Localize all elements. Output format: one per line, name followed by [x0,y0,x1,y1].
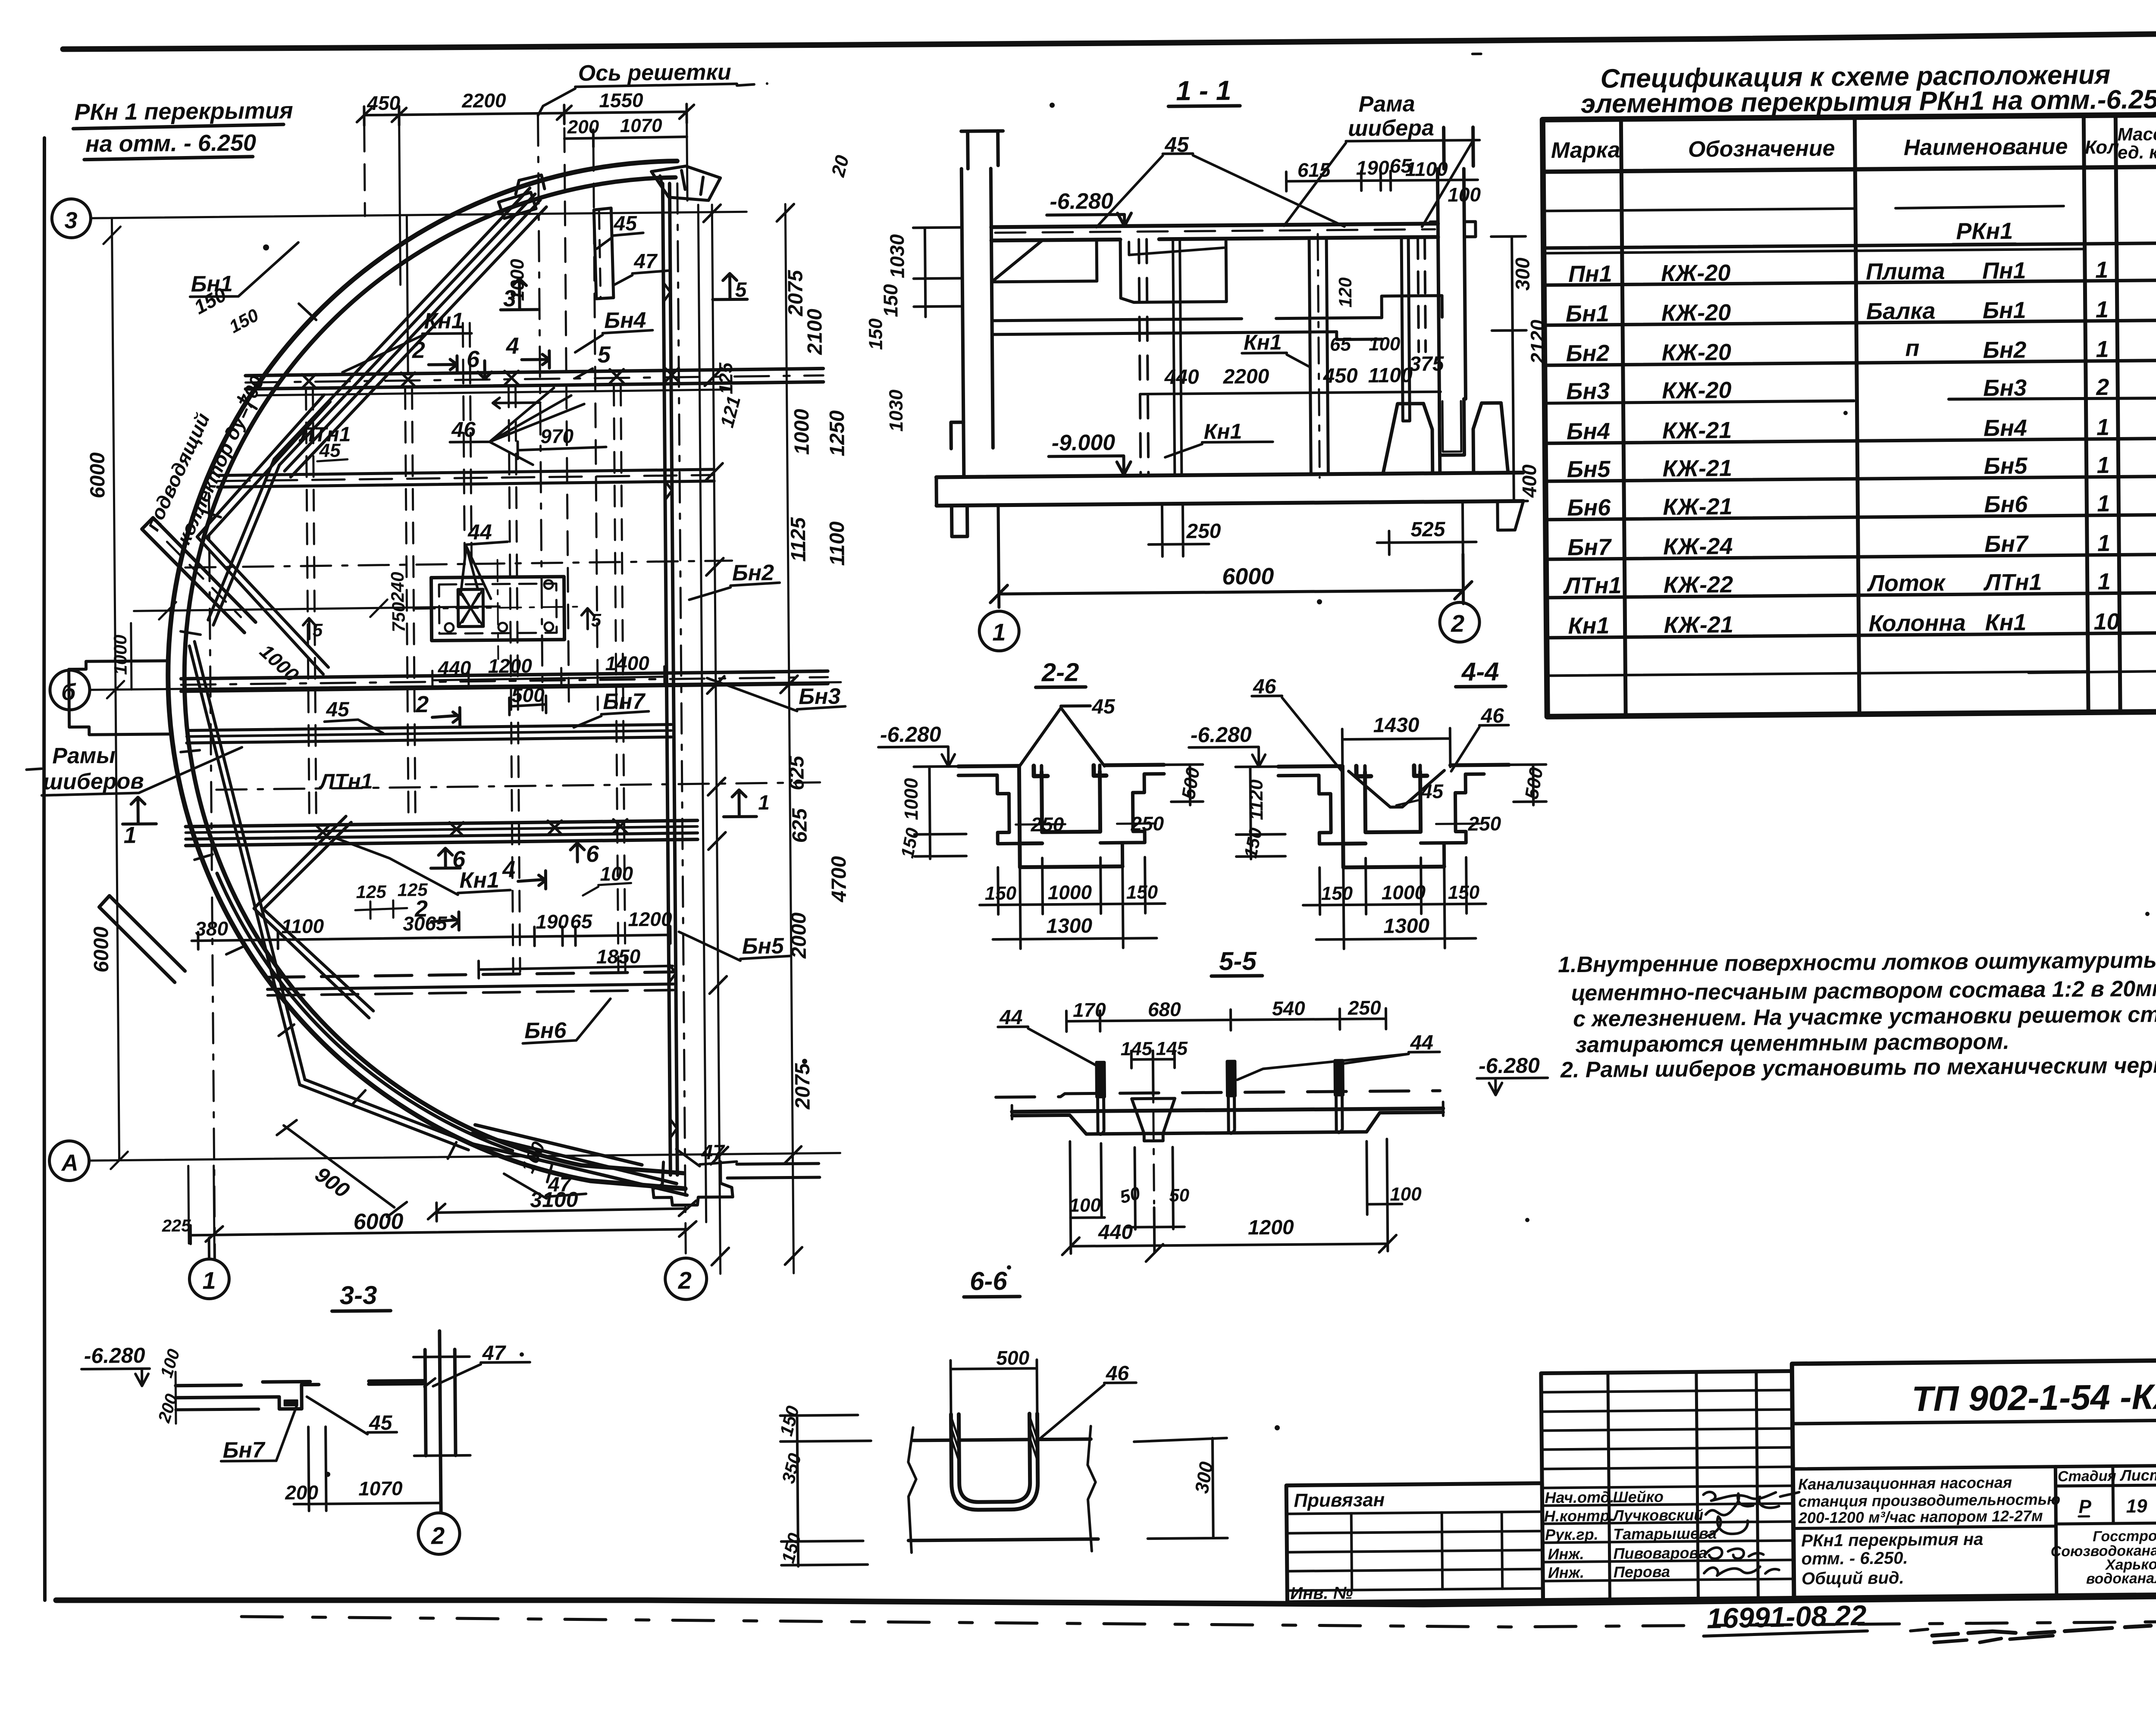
svg-text:1030: 1030 [886,389,907,432]
svg-text:100: 100 [1069,1195,1101,1216]
collector channel stub upper [142,517,256,633]
axis bubble Б [50,670,90,710]
svg-text:КЖ-20: КЖ-20 [1662,377,1732,404]
vertical pipe right of middle [1401,237,1410,421]
svg-text:190: 190 [536,910,569,933]
grid bubble 2 [1440,602,1480,642]
inner dim 250 [1436,823,1479,825]
axis 1 vertical dash-dot [209,493,215,1259]
svg-text:Бн5: Бн5 [1984,453,2028,479]
svg-text:450: 450 [1322,364,1358,388]
svg-text:-6.280: -6.280 [1191,723,1252,747]
svg-text:4: 4 [502,856,516,882]
right dim 500 [1164,764,1203,805]
svg-text:Бн4: Бн4 [1567,418,1610,444]
svg-text:Бн7: Бн7 [222,1438,266,1463]
svg-text:КЖ-21: КЖ-21 [1663,494,1733,520]
embedded corner angles [1034,765,1106,776]
svg-text:Бн7: Бн7 [603,689,646,714]
bottom dim 1300 [993,938,1157,939]
dim 500 top [950,1360,1037,1414]
svg-text:2000: 2000 [787,912,811,959]
right dim chain outer [785,204,793,1273]
svg-text:500: 500 [511,684,545,707]
beam Бн4 outline [594,208,614,299]
svg-text:1300: 1300 [1383,914,1429,938]
svg-text:-6.280: -6.280 [1479,1053,1540,1078]
svg-text:500: 500 [996,1346,1030,1369]
column dashed pairs vertical [306,385,625,974]
right dim 500 [1509,764,1546,805]
right footing pedestal [1382,403,1508,474]
svg-text:Пн1: Пн1 [1982,258,2026,284]
svg-text:Рук.гр.: Рук.гр. [1545,1525,1598,1543]
svg-text:-6.280: -6.280 [880,722,941,747]
plan labels and details [22,152,913,1279]
dim 1850 [479,960,673,979]
svg-text:150: 150 [1448,882,1480,904]
hull joint ticks [177,302,552,1185]
svg-text:КЖ-20: КЖ-20 [1661,339,1731,366]
svg-text:1100: 1100 [826,521,849,566]
frame left border [44,138,45,1600]
svg-text:100: 100 [1369,333,1401,355]
collector transverse dim line [134,599,499,620]
svg-text:2. Рамы шиберов установить: 2. Рамы шиберов установить по механическ… [1560,1052,2156,1082]
bottom dims 200 1070 [293,1426,441,1511]
svg-text:250: 250 [1130,812,1164,835]
svg-text:625: 625 [788,808,812,843]
bottom dims 440 1200 [1071,1244,1388,1246]
svg-text:2075: 2075 [791,1063,815,1110]
svg-text:440: 440 [1098,1221,1133,1244]
right dim 300 [1134,1438,1228,1539]
dim 145 145 [1131,1051,1175,1096]
svg-text:Бн7: Бн7 [1984,531,2029,557]
svg-text:125: 125 [356,882,386,902]
right dims 300 2120 400 [1491,236,1528,501]
svg-text:Пн1: Пн1 [1568,261,1612,287]
svg-text:Лоток: Лоток [1867,570,1946,596]
svg-text:1200: 1200 [628,908,672,931]
svg-text:-6.280: -6.280 [84,1343,145,1368]
svg-text:РКн1 перекрытия на: РКн1 перекрытия на [1801,1530,1983,1551]
svg-text:47: 47 [548,1173,572,1196]
lower dim verticals [1070,1139,1388,1254]
svg-text:Колонна: Колонна [1868,610,1966,637]
svg-text:2: 2 [412,337,426,363]
svg-text:КЖ-20: КЖ-20 [1661,300,1731,326]
svg-text:125: 125 [715,362,737,394]
svg-text:440: 440 [1164,366,1199,389]
svg-text:2: 2 [678,1267,692,1294]
hull niche at axis Б [69,661,170,735]
U anchor loop [951,1414,1038,1510]
svg-text:водоканалпроект: водоканалпроект [2086,1570,2156,1587]
svg-text:440: 440 [437,657,471,679]
svg-text:Н.контр.: Н.контр. [1544,1507,1614,1525]
svg-text:ЛТн1: ЛТн1 [318,769,373,794]
svg-text:цементно-песчаным раствором: цементно-песчаным раствором состава 1:2 … [1571,976,2156,1006]
bottom dim 1300 [1316,938,1476,940]
svg-text:145: 145 [1156,1038,1188,1060]
trough with V bottom [1278,765,1509,766]
svg-text:300: 300 [1511,257,1534,291]
svg-text:1030: 1030 [886,234,909,278]
dim 970 [517,441,606,459]
svg-text:6000: 6000 [353,1209,403,1235]
beam row G Бн6 dashed [267,972,673,977]
svg-text:Бн7: Бн7 [1567,534,1612,560]
title block signature grid [1541,1371,1794,1600]
svg-text:Кн1: Кн1 [1244,330,1282,355]
svg-text:400: 400 [1518,464,1541,498]
trough axis [216,782,820,790]
svg-text:1300: 1300 [1046,914,1092,938]
svg-text:Кн1: Кн1 [424,308,464,334]
svg-text:6: 6 [467,346,480,372]
svg-text:Лучковский: Лучковский [1612,1506,1704,1524]
trough chevron upper [196,395,332,675]
svg-text:1430: 1430 [1373,714,1419,737]
anchor box with cross [458,589,483,626]
svg-text:250: 250 [1467,812,1501,835]
left dim chain 150 350 150 [780,1415,872,1567]
slab step detail [175,1382,319,1410]
column x-marks on row A [302,368,679,388]
svg-text:КЖ-22: КЖ-22 [1664,572,1733,598]
section mark 5 arrow top right [712,273,747,300]
signature scribbles [1703,1491,1800,1576]
svg-text:100: 100 [600,862,633,885]
svg-text:Шейко: Шейко [1613,1488,1664,1506]
svg-text:Татарышева: Татарышева [1613,1524,1717,1543]
svg-text:Пивоварова: Пивоварова [1613,1544,1707,1562]
svg-text:150: 150 [985,883,1017,904]
svg-text:1: 1 [2096,297,2109,322]
axis line А [89,1153,840,1161]
svg-text:2200: 2200 [461,89,506,112]
svg-text:Кн1: Кн1 [1985,610,2026,636]
svg-text:120: 120 [1335,277,1356,307]
svg-text:1000: 1000 [790,409,814,455]
svg-text:А: А [60,1150,78,1176]
svg-text:200: 200 [285,1481,319,1504]
svg-text:6-6: 6-6 [970,1267,1008,1296]
svg-text:Бн3: Бн3 [1566,378,1610,404]
axis line Б [90,682,841,690]
axis line 3 [91,212,746,218]
svg-text:1100: 1100 [281,915,324,938]
hull inner wall [181,178,683,1177]
svg-text:200-1200 м³/час напором 12-27м: 200-1200 м³/час напором 12-27м [1798,1507,2043,1526]
svg-text:1250: 1250 [826,410,849,456]
svg-text:Наименование: Наименование [1904,134,2068,160]
svg-text:1: 1 [2095,257,2109,283]
svg-text:3: 3 [64,207,78,233]
embedded corner angles [1356,766,1427,776]
svg-text:225: 225 [162,1216,191,1236]
svg-text:-6.280: -6.280 [1050,189,1113,214]
svg-text:Р: Р [2078,1496,2091,1517]
svg-text:Бн1: Бн1 [1983,297,2026,324]
dims 50 50 [1126,1227,1185,1227]
top extension lines [364,125,365,216]
svg-text:19: 19 [2126,1495,2147,1517]
top floor slab [991,224,1438,241]
svg-text:450: 450 [367,92,401,115]
section 3-3 [81,1236,532,1557]
svg-text:1: 1 [758,791,770,814]
bearing pad top left [498,175,545,219]
table header bottom line [1543,166,2156,172]
svg-text:Бн5: Бн5 [1567,456,1611,482]
slab haunch left [991,226,1097,282]
grid bubble 1 above 3-3 [189,1259,229,1299]
svg-text:1: 1 [123,822,137,848]
svg-text:Лист: Лист [2119,1466,2156,1484]
svg-text:1.Внутренние поверхности лот: 1.Внутренние поверхности лотков оштукату… [1558,948,2156,977]
section mark 1 left [122,797,156,824]
column x-marks on row E [316,819,627,839]
issuing organization [2050,1527,2156,1587]
bottom dim 3100 [428,1201,696,1221]
beam row B [217,469,714,475]
right wall [1437,127,1476,472]
svg-text:525: 525 [1410,518,1446,541]
trough chevron lower [253,816,373,1019]
left dims 1030 150 [913,227,963,317]
svg-text:ед. кг: ед. кг [2118,142,2156,163]
shiber frame recess right [1382,296,1442,318]
bottom dims 250 525 [1148,504,1209,557]
inner dims 250 250 [1015,823,1156,825]
axis bubble А [49,1141,89,1181]
section mark 1 right [724,790,756,817]
svg-text:Бн1: Бн1 [1566,300,1609,327]
svg-text:1000: 1000 [901,778,922,820]
svg-text:Бн5: Бн5 [742,934,784,959]
table header texts [1551,123,2156,167]
svg-text:Привязан: Привязан [1294,1489,1385,1511]
right column [425,1331,456,1512]
plan view РКн1 [41,59,846,1304]
svg-text:10: 10 [2093,609,2120,635]
svg-text:625: 625 [785,755,808,791]
frame bottom border [56,1595,2156,1605]
svg-text:240: 240 [387,572,408,602]
svg-text:КЖ-21: КЖ-21 [1664,612,1733,638]
interior second slab level [992,318,1382,335]
svg-text:6000: 6000 [1222,563,1274,590]
svg-text:150: 150 [1321,883,1353,904]
svg-text:ТП 902-1-54 -КЖ: ТП 902-1-54 -КЖ [1912,1377,2156,1419]
right wall verticals [663,184,677,1175]
slab band with dashed top [996,1091,1440,1097]
svg-text:45: 45 [319,440,341,461]
svg-text:2: 2 [2096,374,2109,400]
svg-text:Общий вид.: Общий вид. [1802,1568,1904,1588]
project stamp outer [1792,1360,2156,1598]
stage sheet header [2056,1465,2156,1524]
svg-text:1: 1 [202,1267,216,1294]
svg-text:шиберов: шиберов [43,769,144,795]
svg-text:Инв. №: Инв. № [1290,1583,1353,1603]
inner chord face lines [272,188,548,477]
beam row A Бн1 [245,369,823,376]
beam row D [181,671,828,679]
top dim row 450 2200 1550 [364,104,686,125]
bottom dim 6000 [191,1221,696,1244]
collector channel stub lower [99,895,185,983]
frame top border [63,33,2156,49]
svg-text:65: 65 [1330,334,1351,355]
svg-text:1000: 1000 [110,635,131,675]
left dim chain verticals [103,218,128,1169]
handwritten archive number 16991-08 22 [1703,1591,2156,1648]
dim 900 along hull [277,1119,407,1217]
right chain rotated labels [714,152,912,1110]
hull bottom right chord to footing [468,1123,687,1197]
svg-text:2200: 2200 [1222,365,1269,388]
svg-text:540: 540 [1272,997,1306,1020]
scan specks [263,103,2156,1477]
svg-text:150: 150 [1126,882,1158,903]
svg-text:150: 150 [879,284,902,317]
svg-text:5: 5 [735,278,747,301]
funnel [1132,1098,1175,1141]
svg-text:45: 45 [613,212,637,235]
trough cross-section body [958,765,1164,766]
svg-text:Бн3: Бн3 [1983,375,2027,401]
wall joint marks right [664,283,677,1138]
bottom dims 150 1000 150 [998,857,1146,949]
interior dims 440 2200 450 1100 375 [1140,392,1441,394]
svg-text:150: 150 [865,318,887,350]
top dim 1430 [1342,728,1451,768]
table data rows [1560,257,2120,639]
dim 100 right [1367,1203,1402,1206]
wall verticals near axis of grate [407,205,706,1224]
notes text block [1558,947,2156,1082]
axis bubble 3 [52,199,91,238]
svg-text:190: 190 [1356,156,1390,179]
svg-text:Нач.отд.: Нач.отд. [1545,1488,1614,1506]
left dims 1000 150 [914,766,966,859]
trough row E upper edge [187,725,671,731]
svg-text:375: 375 [1409,353,1445,376]
foundation plate [431,577,564,641]
svg-text:1000: 1000 [507,259,528,301]
svg-text:Бн3: Бн3 [799,684,841,710]
svg-text:2: 2 [415,691,429,717]
svg-text:1550: 1550 [599,89,643,112]
svg-text:РКн 1 перекрытия: РКн 1 перекрытия [74,97,293,125]
svg-text:1200: 1200 [488,654,532,677]
svg-text:250: 250 [1347,996,1382,1019]
grid bubble 1 [979,611,1019,651]
trough row E lower edge [185,820,697,826]
hull middle face arc bottom-left [217,871,512,1153]
svg-text:45: 45 [326,698,350,721]
svg-text:Бн2: Бн2 [1566,340,1609,366]
svg-text:170: 170 [1073,998,1106,1021]
table outer box [1542,114,2156,717]
section 2-2 [877,657,1205,950]
svg-text:1125: 1125 [787,517,810,562]
svg-text:970: 970 [540,425,574,447]
svg-text:250: 250 [1186,520,1221,543]
svg-text:затираются цементным раствор: затираются цементным раствором. [1575,1029,2009,1057]
svg-text:Стадия: Стадия [2058,1468,2116,1485]
top dim row 200 1070 [564,129,687,147]
svg-text:КЖ-20: КЖ-20 [1661,260,1731,286]
section 1-1 [877,53,1551,652]
svg-text:680: 680 [1148,998,1181,1021]
top dim row 170 680 540 250 [1066,1008,1386,1032]
svg-text:100: 100 [1390,1183,1422,1205]
svg-text:4-4: 4-4 [1461,657,1499,686]
svg-text:РКн1: РКн1 [1956,218,2013,244]
dims under plate 440 1200 1400 [432,666,666,689]
slab lines with breaks [913,1439,1091,1440]
svg-text:1100: 1100 [1405,158,1448,181]
right dim chain inner [712,205,720,1274]
svg-text:1850: 1850 [596,945,641,968]
svg-text:2: 2 [414,896,428,922]
svg-text:5: 5 [313,620,323,640]
svg-text:45: 45 [1421,780,1444,802]
bottom footing pedestal [653,1162,733,1205]
left attachment block [1286,1483,1543,1602]
svg-text:Бн2: Бн2 [732,560,774,586]
svg-text:250: 250 [1030,813,1064,836]
svg-text:44: 44 [467,520,492,544]
svg-text:на отм. - 6.250: на отм. - 6.250 [85,130,256,157]
axis 2 vertical dash-dot [677,183,686,1257]
svg-text:750: 750 [388,602,409,632]
bottom dims 150 1000 150 [1319,857,1467,949]
svg-text:1100: 1100 [1368,364,1413,387]
svg-text:Канализационная насосная: Канализационная насосная [1798,1473,2012,1493]
hull outer wall [164,161,685,1192]
center dash row C [185,561,732,568]
svg-text:1070: 1070 [620,115,663,137]
bottom dim 6000 [998,501,1463,607]
svg-text:145: 145 [1120,1038,1152,1060]
svg-text:отм. - 6.250.: отм. - 6.250. [1801,1548,1908,1568]
svg-text:Бн2: Бн2 [1983,337,2026,363]
svg-text:65: 65 [570,910,593,932]
dim 500 above trough [509,696,546,715]
section mark 3 with 1000 dim [501,278,539,310]
svg-text:КЖ-21: КЖ-21 [1662,455,1732,482]
section 4-4 [1188,657,1548,950]
svg-text:-9.000: -9.000 [1052,430,1116,456]
svg-text:Масса: Масса [2117,124,2156,144]
svg-text:45: 45 [1091,695,1116,718]
bottom dashed margin line [241,1617,2156,1627]
dim row F 380 1100 3065 190 65 1200 [191,926,670,950]
svg-text:1: 1 [2097,491,2110,516]
svg-text:4700: 4700 [827,856,851,902]
left column I-profile [961,131,1000,476]
anchor bolts hatched [1097,1060,1343,1135]
svg-text:1400: 1400 [605,652,649,675]
svg-text:Инж.: Инж. [1548,1564,1585,1582]
svg-text:Перова: Перова [1614,1563,1670,1581]
svg-text:6000: 6000 [86,452,110,498]
